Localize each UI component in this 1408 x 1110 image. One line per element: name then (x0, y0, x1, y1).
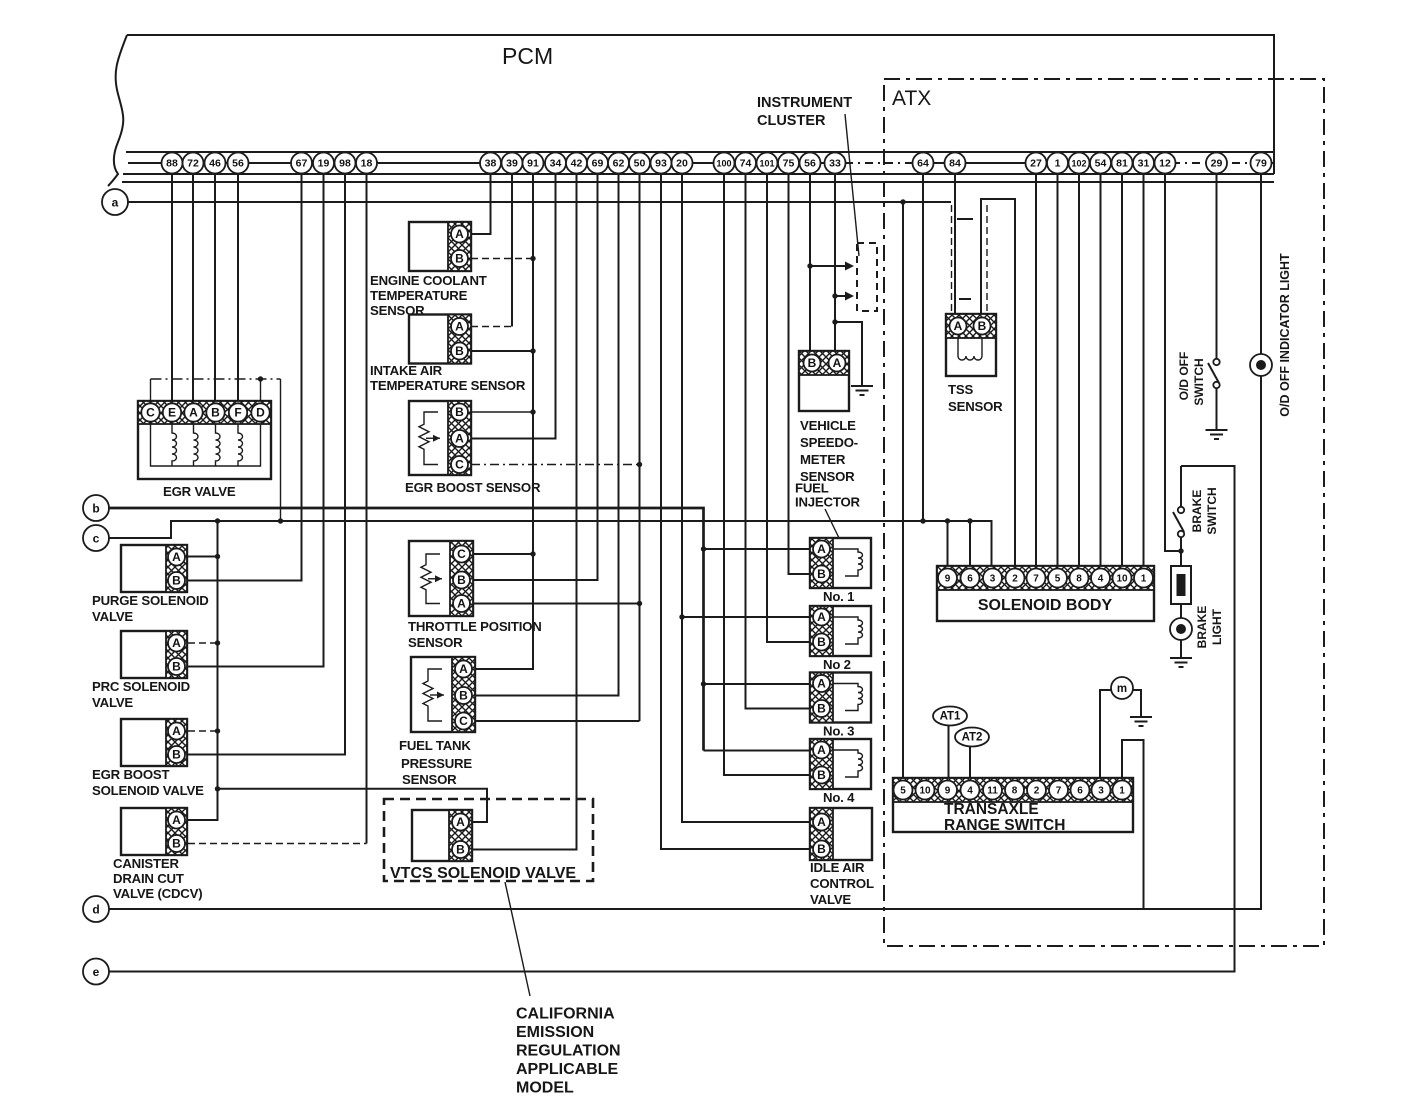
svg-text:TRANSAXLE: TRANSAXLE (944, 801, 1039, 818)
fuel tank pressure sensor (411, 657, 475, 732)
svg-text:B: B (817, 768, 826, 782)
brake light lamp (1170, 618, 1192, 657)
svg-text:TEMPERATURE: TEMPERATURE (370, 288, 468, 303)
svg-text:1: 1 (1141, 574, 1147, 585)
svg-text:91: 91 (527, 158, 539, 170)
svg-text:75: 75 (783, 158, 795, 170)
svg-text:EGR BOOST: EGR BOOST (92, 767, 169, 782)
svg-text:SOLENOID BODY: SOLENOID BODY (978, 597, 1113, 614)
svg-text:7: 7 (1056, 786, 1062, 797)
svg-text:INTAKE AIR: INTAKE AIR (370, 363, 443, 378)
svg-text:SENSOR: SENSOR (948, 399, 1003, 414)
svg-text:PURGE SOLENOID: PURGE SOLENOID (92, 593, 209, 608)
wire EGR boost sol A to c-net (dashed) (188, 730, 218, 732)
svg-text:84: 84 (949, 158, 961, 170)
svg-text:EGR VALVE: EGR VALVE (163, 484, 236, 499)
PCM pin group A: 88 72 46 56 (162, 153, 249, 174)
PCM pin group C: 38 39 91 34 42 69 62 50 93 20 (480, 153, 693, 174)
svg-text:88: 88 (166, 158, 178, 170)
PCM pin group G: 29 79 (1206, 153, 1272, 174)
svg-text:LIGHT: LIGHT (1210, 608, 1224, 645)
svg-text:38: 38 (485, 158, 497, 170)
svg-text:b: b (92, 502, 99, 516)
pin 91 net vertical (475, 174, 533, 669)
svg-text:A: A (172, 636, 181, 650)
svg-text:2: 2 (1012, 574, 1018, 585)
instrument cluster dashed box (857, 243, 877, 311)
svg-text:54: 54 (1095, 158, 1107, 170)
PCM module box (108, 35, 1274, 186)
IAT sensor label (370, 363, 526, 393)
svg-text:No 2: No 2 (823, 657, 851, 672)
svg-text:SPEEDO-: SPEEDO- (800, 435, 858, 450)
fuel injector No. 1 (810, 538, 871, 588)
wire VTCS B to pin 42 (472, 174, 577, 850)
fuel injector No. 3 (810, 673, 871, 723)
instrument cluster label (757, 95, 852, 129)
svg-text:B: B (172, 574, 181, 588)
wire VTCS A to c-net (218, 789, 488, 822)
svg-text:VTCS SOLENOID VALVE: VTCS SOLENOID VALVE (390, 865, 576, 882)
wire FTP B to pin 62 (475, 174, 619, 696)
svg-text:27: 27 (1030, 158, 1042, 170)
svg-text:B: B (172, 660, 181, 674)
O/D off switch (1208, 359, 1220, 429)
IAC label (810, 860, 874, 907)
TSS sensor (946, 314, 996, 376)
PRC solenoid valve label (92, 679, 190, 710)
svg-text:A: A (954, 319, 963, 333)
VSS label (800, 418, 858, 484)
svg-text:8: 8 (1076, 574, 1082, 585)
wire TPS B to pin 69 (473, 174, 598, 580)
svg-text:29: 29 (1211, 158, 1223, 170)
wire ECT B to pin 91 net (dashed) (471, 256, 536, 261)
svg-text:ATX: ATX (892, 87, 931, 110)
svg-text:METER: METER (800, 452, 846, 467)
EGR boost sensor label (405, 480, 541, 495)
svg-text:FUEL TANK: FUEL TANK (399, 738, 471, 753)
EGR boost sensor (409, 401, 471, 475)
wire TSS B to solenoid body pin 2 (981, 199, 1015, 568)
svg-text:CANISTER: CANISTER (113, 856, 179, 871)
svg-text:MODEL: MODEL (516, 1080, 574, 1097)
svg-text:No. 3: No. 3 (823, 724, 854, 739)
svg-text:A: A (459, 662, 468, 676)
svg-text:8: 8 (1012, 786, 1018, 797)
svg-text:d: d (92, 903, 99, 917)
svg-text:TSS: TSS (948, 382, 973, 397)
svg-text:SENSOR: SENSOR (408, 635, 463, 650)
svg-text:No. 4: No. 4 (823, 790, 855, 805)
EGR boost solenoid valve (121, 719, 187, 766)
svg-text:12: 12 (1159, 158, 1171, 170)
node c circle (83, 525, 109, 551)
svg-text:BRAKE: BRAKE (1195, 606, 1209, 649)
svg-text:A: A (817, 542, 826, 556)
PCM pin row connector line (128, 162, 1274, 164)
svg-text:VALVE: VALVE (810, 892, 851, 907)
svg-text:B: B (455, 252, 464, 266)
svg-text:E: E (168, 406, 176, 420)
svg-text:PRESSURE: PRESSURE (401, 756, 472, 771)
svg-text:a: a (112, 196, 119, 210)
wire pin 56 to VSS B (809, 174, 811, 363)
svg-text:REGULATION: REGULATION (516, 1043, 621, 1060)
intake air temperature sensor (409, 315, 471, 364)
TSS shield dashed pair (952, 205, 988, 312)
wire pin 12 to brake switch (1165, 174, 1184, 554)
svg-text:e: e (93, 965, 100, 979)
svg-text:A: A (457, 597, 466, 611)
svg-text:98: 98 (339, 158, 351, 170)
svg-text:A: A (172, 813, 181, 827)
idle air control valve (810, 808, 872, 860)
svg-text:B: B (455, 344, 464, 358)
purge solenoid valve (121, 545, 187, 592)
svg-text:4: 4 (1098, 574, 1104, 585)
svg-text:B: B (817, 842, 826, 856)
svg-text:69: 69 (592, 158, 604, 170)
canister drain cut valve (CDCV) (121, 808, 187, 855)
svg-text:72: 72 (187, 158, 199, 170)
wire EGR boost C to pin 50 net (dash-dot) (471, 462, 642, 467)
svg-text:B: B (817, 567, 826, 581)
transaxle range switch (893, 778, 1133, 832)
throttle position sensor (409, 541, 473, 616)
svg-text:B: B (456, 843, 465, 857)
svg-text:A: A (817, 610, 826, 624)
leader line fuel injector (825, 509, 839, 538)
purge solenoid valve label (92, 593, 209, 624)
svg-text:FUEL: FUEL (795, 481, 829, 496)
label No 2 (823, 657, 851, 672)
svg-text:11: 11 (987, 786, 998, 797)
svg-text:3: 3 (1098, 786, 1104, 797)
svg-text:INSTRUMENT: INSTRUMENT (757, 95, 852, 111)
svg-text:A: A (817, 677, 826, 691)
wire pin 64 to c-net (922, 174, 924, 521)
svg-text:B: B (817, 635, 826, 649)
svg-text:34: 34 (550, 158, 562, 170)
svg-text:B: B (455, 405, 464, 419)
svg-text:c: c (93, 532, 100, 546)
PRC solenoid valve (121, 631, 187, 678)
svg-text:5: 5 (900, 786, 906, 797)
fuel injector No. 4 (810, 739, 871, 789)
svg-text:A: A (817, 743, 826, 757)
wire TRS pin 1 to wire d (1122, 740, 1144, 909)
wire injector No.2 B to pin 101 (767, 174, 810, 642)
EGR boost solenoid valve label (92, 767, 204, 798)
VTCS solenoid valve dashed box (384, 799, 593, 881)
svg-text:B: B (817, 702, 826, 716)
svg-text:VEHICLE: VEHICLE (800, 418, 856, 433)
svg-text:A: A (455, 227, 464, 241)
svg-text:VALVE: VALVE (92, 695, 133, 710)
arrow wire pin33 net to cluster (832, 292, 854, 301)
svg-text:m: m (1117, 683, 1127, 695)
svg-text:18: 18 (361, 158, 373, 170)
svg-text:C: C (455, 458, 464, 472)
node b circle (83, 495, 109, 521)
svg-text:7: 7 (1033, 574, 1039, 585)
svg-text:F: F (234, 406, 241, 420)
svg-text:50: 50 (634, 158, 646, 170)
svg-text:RANGE SWITCH: RANGE SWITCH (944, 817, 1065, 834)
solenoid body label (978, 597, 1113, 614)
svg-text:10: 10 (919, 786, 931, 797)
svg-text:TEMPERATURE SENSOR: TEMPERATURE SENSOR (370, 378, 526, 393)
brake light label (1195, 606, 1224, 649)
svg-text:B: B (172, 837, 181, 851)
wire purge A to c-net (188, 556, 218, 558)
california emission note (516, 1006, 621, 1097)
svg-text:33: 33 (829, 158, 841, 170)
O/D off indicator lamp (1250, 174, 1272, 376)
wire injector No.1 B to pin 75 (789, 174, 811, 574)
svg-text:9: 9 (945, 786, 951, 797)
ECT sensor label (370, 273, 487, 318)
inhibitor M symbol (1100, 677, 1152, 780)
wire pin 84 to TSS A (954, 174, 956, 326)
svg-text:74: 74 (740, 158, 752, 170)
svg-text:1: 1 (1055, 158, 1061, 170)
svg-text:A: A (189, 406, 198, 420)
arrow wire pin56 net to cluster (807, 262, 854, 271)
svg-text:100: 100 (716, 159, 731, 169)
wire injector No.4 A from b feed (704, 750, 811, 752)
node a circle (102, 189, 128, 215)
svg-text:CLUSTER: CLUSTER (757, 113, 826, 129)
svg-text:62: 62 (613, 158, 625, 170)
svg-text:IDLE AIR: IDLE AIR (810, 860, 865, 875)
svg-text:VALVE: VALVE (92, 609, 133, 624)
svg-text:79: 79 (1255, 158, 1267, 170)
wire a horizontal (127, 199, 951, 204)
svg-text:B: B (808, 356, 817, 370)
svg-text:A: A (456, 815, 465, 829)
VSS ground branch (835, 322, 873, 395)
svg-text:B: B (459, 689, 468, 703)
PCM pin group D: 100 74 101 75 56 33 (714, 153, 846, 174)
svg-text:BRAKE: BRAKE (1190, 490, 1204, 533)
wire d horizontal to O/D indicator (109, 376, 1261, 909)
svg-text:5: 5 (1055, 574, 1061, 585)
svg-text:SOLENOID VALVE: SOLENOID VALVE (92, 783, 204, 798)
c-net distribution vertical (left solenoid valves) (188, 521, 220, 820)
wire TPS A to pin 50 net (473, 601, 642, 606)
brake switch label (1190, 487, 1219, 534)
svg-text:CALIFORNIA: CALIFORNIA (516, 1006, 615, 1023)
leader line california note (505, 882, 530, 996)
svg-text:EMISSION: EMISSION (516, 1024, 594, 1041)
svg-text:SWITCH: SWITCH (1192, 358, 1206, 405)
wire IAC B from pin 93 (661, 174, 810, 849)
svg-text:A: A (817, 815, 826, 829)
AT1 terminal (933, 707, 967, 781)
CDCV label (113, 856, 202, 901)
wire injector No.4 B to pin 100 (724, 174, 810, 775)
svg-text:20: 20 (676, 158, 688, 170)
wire ECT A to pin 38 (471, 174, 491, 234)
wires PCM pins 27 1 102 54 81 31 to solenoid body (1036, 174, 1144, 568)
svg-text:2: 2 (1034, 786, 1040, 797)
VTCS solenoid valve (412, 810, 472, 861)
VTCS label (390, 865, 576, 882)
node e circle (83, 959, 109, 985)
wire e horizontal to brake switch (109, 466, 1235, 972)
label No. 4 (823, 790, 855, 805)
PCM pin group F: 27 1 102 54 81 31 12 (1026, 153, 1176, 174)
svg-text:10: 10 (1116, 574, 1128, 585)
TPS label (408, 619, 542, 650)
svg-text:D: D (256, 406, 265, 420)
svg-text:INJECTOR: INJECTOR (795, 495, 861, 510)
svg-text:93: 93 (655, 158, 667, 170)
svg-text:A: A (833, 356, 842, 370)
leader line instrument cluster (845, 114, 859, 256)
svg-text:81: 81 (1116, 158, 1128, 170)
svg-text:SENSOR: SENSOR (402, 772, 457, 787)
svg-text:B: B (457, 573, 466, 587)
brake light ground (1170, 658, 1192, 667)
svg-text:46: 46 (209, 158, 221, 170)
vehicle speedometer sensor (799, 351, 849, 411)
svg-text:A: A (455, 320, 464, 334)
wire PRC A to c-net (dashed) (188, 642, 218, 644)
svg-text:56: 56 (804, 158, 816, 170)
wire injector No.3 B to pin 74 (746, 174, 811, 709)
wire IAT A to pin 39 (dashed) (471, 174, 512, 327)
wire EGR boost A to pin 34 (471, 174, 556, 439)
FTP sensor label (399, 738, 472, 787)
svg-text:PRC SOLENOID: PRC SOLENOID (92, 679, 190, 694)
wire PRC B to pin 19 (188, 174, 324, 667)
svg-text:6: 6 (967, 574, 973, 585)
wire EGR boost B to pin 91 net (471, 409, 536, 414)
wire purge B to pin 67 (188, 174, 302, 581)
svg-text:PCM: PCM (502, 43, 553, 69)
fuel injector No 2 (810, 606, 871, 656)
EGR valve (138, 401, 271, 479)
TRS label (944, 801, 1065, 834)
svg-text:9: 9 (945, 574, 951, 585)
svg-text:102: 102 (1071, 159, 1086, 169)
PCM pin group B: 67 19 98 18 (291, 153, 377, 174)
svg-text:A: A (172, 550, 181, 564)
svg-text:6: 6 (1077, 786, 1083, 797)
EGR valve common feed wire C/D to node c (151, 376, 281, 521)
svg-text:ENGINE COOLANT: ENGINE COOLANT (370, 273, 487, 288)
svg-text:VALVE (CDCV): VALVE (CDCV) (113, 886, 202, 901)
svg-text:AT1: AT1 (940, 711, 961, 723)
svg-text:O/D OFF: O/D OFF (1177, 352, 1191, 401)
brake switch (1173, 466, 1184, 566)
wire injector No.3 A from b feed (704, 683, 811, 685)
svg-text:67: 67 (296, 158, 308, 170)
svg-text:AT2: AT2 (962, 732, 983, 744)
svg-text:19: 19 (318, 158, 330, 170)
PCM pin group E: 64 84 (913, 153, 966, 174)
wire injector No.1 A from b feed (704, 548, 811, 550)
label No. 1 (823, 589, 854, 604)
label No. 3 (823, 724, 854, 739)
svg-text:101: 101 (759, 159, 774, 169)
wire pin 29 to O/D off switch (1216, 174, 1218, 359)
svg-text:No. 1: No. 1 (823, 589, 854, 604)
svg-text:DRAIN CUT: DRAIN CUT (113, 871, 184, 886)
svg-text:C: C (146, 406, 155, 420)
O/D off indicator light label (1278, 253, 1292, 417)
O/D off switch label (1177, 352, 1206, 406)
node d circle (83, 896, 109, 922)
fuel injector label (795, 481, 861, 510)
wire IAC A from pin 20 (682, 174, 810, 822)
svg-text:3: 3 (990, 574, 996, 585)
solenoid body (937, 566, 1154, 621)
EGR valve label (163, 484, 236, 499)
svg-text:64: 64 (917, 158, 929, 170)
svg-text:56: 56 (232, 158, 244, 170)
wires PCM pins 88 72 46 56 to EGR valve (172, 174, 238, 401)
svg-text:APPLICABLE: APPLICABLE (516, 1061, 619, 1078)
ATX module dashed box (884, 79, 1324, 946)
wire c horizontal solenoid feed (108, 518, 992, 568)
svg-text:A: A (172, 724, 181, 738)
AT2 terminal (955, 728, 989, 781)
svg-text:C: C (457, 547, 466, 561)
svg-text:B: B (978, 319, 987, 333)
wire FTP C to pin 50 net (475, 174, 640, 721)
wire pin 33 to VSS A (832, 174, 837, 363)
svg-text:1: 1 (1119, 786, 1125, 797)
svg-text:4: 4 (967, 786, 973, 797)
wire TPS C to pin 91 net (473, 551, 536, 556)
svg-text:CONTROL: CONTROL (810, 876, 874, 891)
wire node a to TRS pin 5 (902, 202, 904, 780)
O/D off switch ground (1206, 430, 1228, 439)
svg-text:A: A (455, 432, 464, 446)
wire injector No.2 A from pin 20 net (679, 614, 810, 619)
svg-text:O/D OFF INDICATOR LIGHT: O/D OFF INDICATOR LIGHT (1278, 253, 1292, 417)
svg-text:EGR BOOST SENSOR: EGR BOOST SENSOR (405, 480, 541, 495)
brake light fuse element (1171, 566, 1191, 618)
svg-text:B: B (172, 748, 181, 762)
svg-text:31: 31 (1138, 158, 1150, 170)
engine coolant temperature sensor (409, 222, 471, 271)
svg-text:C: C (459, 714, 468, 728)
svg-text:42: 42 (571, 158, 583, 170)
svg-text:B: B (211, 406, 220, 420)
wire CDCV B to pin 18 (dashed) (188, 174, 367, 844)
wire IAT B to pin 91 net (471, 348, 536, 353)
wire b horizontal to injector feed (108, 508, 706, 751)
TSS label (948, 382, 1003, 414)
wire EGR boost sol B to pin 98 (188, 174, 345, 755)
svg-text:39: 39 (506, 158, 518, 170)
svg-text:THROTTLE POSITION: THROTTLE POSITION (408, 619, 542, 634)
svg-text:SWITCH: SWITCH (1205, 487, 1219, 534)
